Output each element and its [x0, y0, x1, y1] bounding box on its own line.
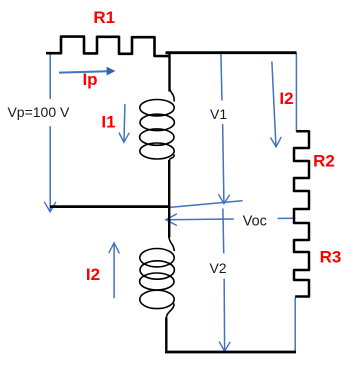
svg-text:R2: R2 [313, 152, 335, 171]
svg-text:I1: I1 [101, 113, 115, 132]
svg-text:Ip: Ip [82, 70, 97, 89]
svg-text:I2: I2 [86, 265, 100, 284]
svg-text:V2: V2 [209, 260, 226, 276]
svg-text:Voc: Voc [243, 213, 267, 229]
svg-text:R3: R3 [320, 248, 342, 267]
svg-text:R1: R1 [93, 8, 115, 27]
svg-text:Vp=100 V: Vp=100 V [7, 104, 70, 120]
svg-text:I2: I2 [279, 89, 293, 108]
svg-text:V1: V1 [210, 106, 227, 122]
